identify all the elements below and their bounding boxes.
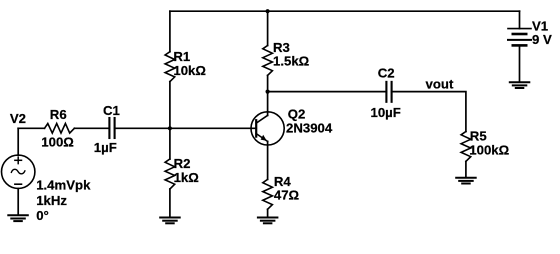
wire V1 top lead — [519, 11, 521, 28]
svg-text:100kΩ: 100kΩ — [469, 142, 509, 157]
ground under V1 — [510, 82, 530, 88]
resistor R3 — [263, 46, 273, 76]
svg-text:1.5kΩ: 1.5kΩ — [273, 53, 310, 68]
wire V1 bottom lead — [519, 45, 521, 81]
svg-text:1kΩ: 1kΩ — [174, 170, 200, 185]
svg-text:vout: vout — [426, 77, 454, 92]
wire R3 top lead — [267, 11, 269, 45]
node collector junction — [266, 90, 270, 94]
capacitor C2 — [386, 82, 391, 102]
svg-text:10µF: 10µF — [371, 105, 401, 120]
ground under R4 — [258, 218, 278, 224]
wire R5 bottom lead — [465, 161, 467, 177]
wire C2 from collector — [268, 91, 387, 93]
svg-text:1.4mVpk: 1.4mVpk — [36, 178, 91, 193]
wire R6 to C1 — [74, 127, 109, 129]
svg-text:R6: R6 — [50, 107, 67, 122]
wire V2 top lead — [17, 128, 19, 155]
wire top rail — [170, 10, 520, 12]
svg-text:V1: V1 — [532, 18, 548, 33]
wire C1 to base — [115, 127, 257, 129]
svg-text:1µF: 1µF — [94, 140, 117, 155]
svg-text:1kHz: 1kHz — [36, 193, 67, 208]
wire R1 bottom lead — [169, 82, 171, 129]
wire emitter lead — [267, 141, 269, 179]
resistor R6 — [45, 124, 75, 134]
svg-text:47Ω: 47Ω — [274, 187, 300, 202]
node top-rail/R3 junction — [266, 9, 270, 13]
ground under R5 — [456, 178, 476, 184]
wire C2 to vout corner — [392, 92, 466, 132]
svg-text:V2: V2 — [10, 111, 26, 126]
resistor R4 — [263, 179, 273, 209]
wire input to R6 — [18, 127, 44, 129]
battery V1 — [508, 29, 531, 46]
transistor Q2 — [251, 112, 284, 145]
wire R2 bottom lead — [169, 189, 171, 217]
svg-text:9 V: 9 V — [532, 32, 552, 47]
wire V2 bottom lead — [17, 189, 19, 215]
resistor R1 — [165, 52, 175, 82]
svg-text:0°: 0° — [36, 208, 49, 223]
ground under R2 — [160, 218, 180, 224]
svg-text:100Ω: 100Ω — [41, 135, 74, 150]
node base junction — [168, 126, 172, 130]
wire R2 top lead — [169, 128, 171, 159]
resistor R2 — [165, 159, 175, 189]
ground under V2 — [8, 215, 28, 221]
svg-text:R5: R5 — [470, 128, 487, 143]
resistor R5 — [461, 132, 471, 162]
svg-text:2N3904: 2N3904 — [286, 121, 333, 136]
wire R3 bottom lead to collector — [267, 75, 269, 115]
svg-text:Q2: Q2 — [288, 106, 306, 121]
AC source V2 — [2, 155, 35, 188]
wire R4 bottom lead — [267, 209, 269, 217]
wire R1 top lead — [169, 11, 171, 52]
svg-text:C1: C1 — [103, 103, 120, 118]
capacitor C1 — [109, 118, 114, 138]
svg-text:10kΩ: 10kΩ — [173, 63, 206, 78]
svg-text:C2: C2 — [378, 66, 395, 81]
